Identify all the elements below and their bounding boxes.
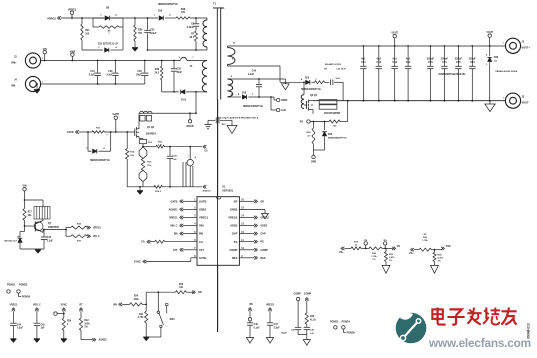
svg-text:220uF: 220uF: [455, 57, 463, 60]
capacitor C44: [10, 323, 23, 339]
capacitor C46: [247, 323, 260, 338]
svg-text:GATB: GATB: [67, 131, 74, 134]
label T1: [213, 2, 225, 10]
svg-text:VIN-: VIN-: [11, 85, 16, 88]
svg-text:VDD2: VDD2: [230, 224, 238, 228]
ground: [143, 337, 149, 341]
svg-text:R26: R26: [67, 321, 72, 323]
svg-text:RES: RES: [232, 256, 238, 260]
node VINS: [70, 50, 76, 61]
svg-text:VOUT: VOUT: [391, 31, 398, 34]
svg-text:0.47k: 0.47k: [438, 256, 444, 259]
svg-text:0.47k: 0.47k: [389, 256, 395, 259]
svg-text:1: 1: [42, 81, 43, 83]
svg-text:PGND4: PGND4: [342, 320, 351, 323]
svg-text:SYNC: SYNC: [61, 304, 68, 306]
diode D16: [154, 3, 178, 20]
resistor R24: [433, 250, 444, 263]
svg-text:VREG2: VREG2: [266, 304, 275, 306]
svg-text:CA: CA: [141, 241, 145, 244]
signal ground: [246, 338, 253, 344]
zener diode D11: [4, 225, 25, 249]
svg-text:VS+: VS+: [409, 252, 414, 255]
svg-text:C55: C55: [456, 61, 461, 64]
diode D22: [322, 121, 347, 150]
signal ground GND2: [239, 209, 268, 218]
capacitor C36: [41, 229, 54, 249]
svg-text:7: 7: [187, 156, 188, 158]
node VOUT2: [486, 31, 493, 46]
svg-text:PGND3: PGND3: [330, 320, 339, 323]
svg-text:R39: R39: [155, 69, 160, 71]
pot TP1: [183, 146, 197, 187]
svg-text:C51: C51: [442, 61, 447, 64]
resistor R40: [176, 283, 194, 294]
svg-text:R40: R40: [179, 283, 184, 286]
resistor R4: [315, 63, 347, 84]
signal ground: [266, 338, 273, 344]
resistor R27: [81, 17, 91, 50]
svg-text:VREG2: VREG2: [228, 216, 238, 220]
svg-text:C50: C50: [428, 61, 433, 64]
port CA: [203, 145, 208, 153]
svg-text:www.elecfans.com: www.elecfans.com: [428, 336, 531, 350]
port OVP: [441, 245, 451, 250]
svg-text:33uF: 33uF: [136, 74, 142, 76]
ground: [34, 339, 40, 343]
signal ground: [382, 262, 390, 274]
switch SW1: [157, 291, 175, 337]
capacitor C51: [441, 45, 449, 102]
svg-text:C45: C45: [41, 323, 46, 326]
svg-text:VOUT-: VOUT-: [522, 102, 530, 105]
signal ground: [227, 120, 237, 133]
transistor Q7: [25, 219, 60, 232]
ground: [485, 101, 495, 112]
wire winding A bottom: [228, 65, 281, 83]
capacitor C39: [106, 60, 118, 85]
resistor R30: [134, 17, 137, 47]
svg-text:VREG1: VREG1: [199, 216, 209, 220]
svg-text:AGND1: AGND1: [99, 339, 108, 342]
svg-text:D10 BZT52C11-LP: D10 BZT52C11-LP: [98, 43, 118, 45]
resistor R41: [138, 311, 148, 337]
transistor Q3 Q4: [304, 94, 341, 115]
svg-text:VIN: VIN: [113, 304, 117, 306]
svg-text:3.3uF: 3.3uF: [17, 328, 24, 330]
wire: [165, 146, 203, 148]
connector J4 VIN-: [11, 76, 43, 91]
port COMPb: [305, 298, 308, 313]
svg-text:1: 1: [192, 57, 193, 59]
svg-text:220uF: 220uF: [441, 57, 449, 60]
port COMP: [239, 248, 268, 252]
svg-text:VRRG2: VRRG2: [68, 9, 77, 12]
svg-text:MMSD4448SFT1G: MMSD4448SFT1G: [328, 136, 347, 139]
ground: [10, 339, 16, 343]
svg-text:D18: D18: [242, 93, 247, 95]
capacitor C33: [171, 60, 183, 93]
label 2KV: [222, 124, 227, 126]
node DRAB: [187, 112, 194, 128]
diode D8: [93, 7, 123, 21]
transformer T1 secondary winding A: [228, 43, 236, 66]
wire: [81, 330, 93, 339]
svg-text:PA1576NL: PA1576NL: [213, 7, 225, 10]
transformer T1 primary winding: [202, 61, 207, 92]
svg-text:0u1: 0u1: [393, 57, 398, 60]
svg-text:VIN: VIN: [199, 224, 204, 228]
svg-text:2: 2: [179, 57, 180, 59]
port VDD2: [239, 224, 267, 228]
svg-text:1: 1: [503, 98, 504, 100]
resistor R19: [351, 242, 361, 250]
transformer T1 aux winding: [203, 20, 207, 50]
capacitor C38: [136, 60, 148, 84]
wire: [187, 60, 207, 62]
svg-text:68.7: 68.7: [190, 37, 195, 39]
wire top input rail: [41, 60, 162, 62]
svg-text:VDD2: VDD2: [260, 225, 267, 228]
capacitor C52: [376, 45, 382, 102]
resistor R17: [23, 200, 33, 226]
port VREG2: [10, 304, 19, 323]
ground: [35, 250, 41, 254]
capacitor C35: [167, 146, 178, 188]
port VREG2b: [266, 304, 275, 322]
svg-text:D16: D16: [158, 11, 163, 13]
connector J1 VOUT+: [503, 38, 530, 53]
svg-text:PARALLELING DIODE: PARALLELING DIODE: [496, 70, 518, 73]
resistor R8: [93, 18, 123, 35]
svg-text:VS: VS: [397, 245, 401, 248]
resistor R12: [156, 142, 165, 149]
svg-text:0u1: 0u1: [377, 57, 382, 60]
svg-text:BILAMP L/C33N: BILAMP L/C33N: [325, 63, 341, 66]
pin 4 VIN: [194, 223, 203, 228]
wire: [298, 334, 307, 336]
svg-text:0.33uF: 0.33uF: [187, 27, 195, 29]
resistor R29: [306, 121, 315, 150]
svg-text:BZT52C11-F: BZT52C11-F: [4, 241, 17, 243]
svg-text:GND1: GND1: [199, 208, 207, 212]
svg-text:100: 100: [181, 11, 186, 14]
node SRB: [311, 150, 316, 163]
watermark logo: [396, 312, 427, 343]
svg-text:100k: 100k: [84, 323, 90, 325]
svg-text:220uF: 220uF: [469, 57, 477, 60]
svg-text:2KV: 2KV: [222, 124, 227, 126]
svg-text:1: 1: [106, 135, 107, 137]
port ATT: [173, 248, 197, 252]
wire: [190, 18, 207, 20]
svg-text:RSNCH: RSNCH: [203, 190, 211, 192]
ground: [61, 339, 67, 343]
resistor R18: [305, 313, 316, 324]
svg-text:R17: R17: [28, 212, 33, 214]
wire: [79, 131, 92, 133]
label paralleling diode: [496, 70, 518, 73]
svg-text:PS: PS: [260, 241, 264, 244]
svg-text:3.3uF: 3.3uF: [106, 74, 113, 76]
svg-text:RJC0651DPB8: RJC0651DPB8: [324, 113, 341, 115]
svg-text:24.3: 24.3: [155, 71, 160, 74]
wire: [139, 112, 196, 114]
port VIN_C: [170, 224, 197, 228]
svg-text:PS: PS: [300, 121, 304, 124]
node PS: [300, 120, 329, 124]
pin 14 VREG2: [228, 215, 244, 220]
pin 7 ATT: [194, 248, 204, 252]
svg-text:GRM32ER71E226KE15L: GRM32ER71E226KE15L: [438, 73, 466, 76]
svg-text:CA: CA: [204, 150, 208, 153]
resistor R2: [190, 27, 198, 51]
op-amp U1 ADP1051: [197, 185, 239, 266]
svg-text:FB: FB: [364, 240, 367, 242]
svg-text:4.75k: 4.75k: [138, 316, 144, 319]
svg-text:1%: 1%: [438, 260, 441, 262]
wire: [24, 199, 43, 206]
svg-text:R41: R41: [139, 313, 144, 316]
port VS2: [409, 248, 419, 255]
pin 11 PS: [234, 240, 245, 244]
svg-text:RN: RN: [174, 233, 178, 236]
node ALB: [270, 96, 286, 112]
wire: [142, 292, 175, 311]
capacitor C34: [469, 45, 477, 102]
node FB: [361, 240, 369, 250]
wire bottom input rail: [41, 83, 145, 85]
signal ground: [303, 335, 310, 346]
svg-text:DRAB: DRAB: [187, 125, 194, 128]
resistor R37: [66, 230, 100, 243]
node VIN: [23, 184, 27, 200]
svg-text:ATT: ATT: [173, 249, 178, 252]
wire: [135, 17, 158, 19]
capacitor C37: [267, 323, 280, 338]
node: [54, 312, 65, 315]
transformer T1 core: [217, 8, 220, 100]
wire: [314, 149, 325, 151]
svg-text:VRRG2: VRRG2: [47, 16, 56, 20]
svg-text:C10 100pF CAPACITOR PROGESN 15: C10 100pF CAPACITOR PROGESN 15KV A: [218, 116, 259, 119]
pin 16 SR: [234, 199, 245, 203]
svg-text:PGND4: PGND4: [22, 296, 31, 299]
svg-text:GATB: GATB: [199, 199, 206, 203]
diode D9: [86, 131, 111, 162]
svg-text:VREG1: VREG1: [93, 228, 102, 230]
resistor R28: [329, 120, 348, 128]
svg-text:3.3uF: 3.3uF: [89, 74, 96, 76]
svg-text:220uF: 220uF: [427, 57, 435, 60]
port GATB: [67, 130, 79, 134]
capacitor C40: [248, 70, 262, 98]
diode D30: [486, 45, 499, 102]
pin 2 GND1: [194, 208, 207, 212]
wire: [93, 17, 135, 19]
port VS+: [339, 247, 351, 254]
resistor R14: [126, 131, 135, 187]
watermark url: [428, 336, 531, 350]
transformer T1 secondary winding B: [228, 76, 233, 97]
svg-text:C41: C41: [361, 61, 366, 64]
capacitor C19: [89, 60, 101, 85]
diode D20: [301, 77, 321, 90]
svg-text:MMSD4448SFT1G: MMSD4448SFT1G: [243, 105, 263, 108]
svg-text:RD: RD: [249, 303, 253, 306]
svg-text:C40: C40: [252, 70, 257, 73]
svg-text:1: 1: [503, 43, 504, 45]
isolation barrier: [217, 100, 219, 333]
port VRRG2: [47, 16, 61, 20]
svg-text:COMP: COMP: [229, 248, 237, 252]
wire secondary bottom rail: [313, 100, 505, 102]
diode D1: [181, 90, 207, 102]
wire: [138, 113, 140, 126]
wire: [312, 100, 314, 102]
svg-text:1%: 1%: [84, 327, 87, 329]
svg-text:VDD2: VDD2: [281, 99, 288, 102]
svg-text:MMSD4448SFT1G: MMSD4448SFT1G: [90, 159, 110, 162]
package outline: [319, 100, 337, 110]
svg-text:SYNC: SYNC: [199, 256, 207, 260]
svg-text:D1 B: D1 B: [181, 100, 187, 102]
svg-text:SW1: SW1: [170, 318, 176, 321]
resistor R23b: [419, 234, 432, 251]
earth ground: [205, 120, 212, 129]
jumper J5: [179, 57, 194, 68]
node VDD2: [271, 97, 288, 102]
svg-text:41.2k: 41.2k: [310, 318, 316, 321]
port VDD_C: [33, 304, 41, 323]
svg-text:D20: D20: [305, 77, 310, 79]
node VOUT: [391, 31, 398, 46]
pin 12 OVP: [232, 232, 245, 236]
svg-text:CA: CA: [199, 240, 203, 244]
capacitor C50: [427, 45, 435, 102]
node VRRG2: [68, 9, 77, 19]
wire: [148, 49, 208, 51]
svg-text:R34: R34: [134, 295, 139, 298]
svg-text:PGND1: PGND1: [7, 283, 16, 286]
svg-text:AGND1: AGND1: [169, 208, 178, 211]
svg-text:Q1 Q2: Q1 Q2: [147, 126, 155, 129]
svg-text:ALB: ALB: [281, 109, 286, 112]
value R30: [138, 29, 143, 35]
port VS: [392, 245, 400, 250]
svg-text:SYNC: SYNC: [134, 260, 141, 263]
node COMP: [294, 293, 312, 327]
svg-text:1%: 1%: [372, 259, 375, 261]
wire: [104, 131, 134, 133]
svg-text:VOUT+: VOUT+: [522, 47, 531, 50]
svg-text:C52: C52: [377, 61, 382, 64]
capacitor C43: [304, 324, 315, 335]
svg-text:VINS: VINS: [70, 50, 76, 53]
svg-text:0u1: 0u1: [361, 57, 366, 60]
diode D10: [82, 27, 123, 52]
svg-text:R16 0: R16 0: [155, 191, 162, 193]
svg-text:RES: RES: [260, 257, 265, 260]
svg-text:SR: SR: [234, 199, 238, 203]
svg-text:1nF: 1nF: [310, 333, 315, 335]
capacitor C53: [392, 45, 398, 102]
svg-text:1.74k: 1.74k: [422, 239, 428, 242]
resistor R35: [65, 223, 101, 230]
port RN: [174, 232, 197, 236]
svg-text:1uF: 1uF: [41, 328, 46, 330]
resistor R23 on CA pin: [141, 240, 197, 244]
port PS: [239, 240, 264, 244]
capacitor C54: [405, 45, 411, 102]
connector J3 VOUT-: [503, 93, 529, 108]
svg-text:COMP: COMP: [304, 293, 312, 296]
wire: [342, 82, 344, 100]
svg-text:Q3 Q4: Q3 Q4: [310, 94, 318, 97]
pin 1 GATB: [194, 199, 206, 203]
port VREG2: [239, 216, 269, 220]
svg-text:RS: RS: [384, 240, 388, 242]
svg-text:SRB: SRB: [311, 160, 316, 163]
port SYNC: [134, 258, 197, 264]
svg-text:OVP: OVP: [446, 245, 451, 248]
svg-text:100pF: 100pF: [281, 333, 288, 335]
svg-text:1: 1: [42, 58, 43, 60]
ground: [132, 48, 138, 52]
port RSNCH: [203, 185, 211, 192]
ground: [34, 83, 40, 93]
pin 6 CA: [194, 240, 203, 244]
wire winding B top: [228, 78, 286, 80]
current transformer secondary: [301, 81, 305, 108]
wire: [347, 100, 349, 122]
svg-text:VS+: VS+: [339, 251, 344, 254]
diode D18: [238, 93, 271, 109]
svg-text:PGND2: PGND2: [19, 283, 28, 286]
port VREG1: [169, 216, 197, 220]
resistor R38: [176, 8, 190, 19]
svg-text:GATB: GATB: [171, 200, 178, 203]
node VIN: [43, 48, 47, 61]
pin 9 RES: [232, 256, 243, 260]
svg-text:C53: C53: [392, 61, 397, 64]
svg-text:2.2uF: 2.2uF: [248, 74, 255, 76]
svg-text:R18: R18: [310, 316, 315, 318]
resistor R20: [369, 247, 382, 261]
svg-text:C46: C46: [254, 323, 259, 326]
connector J2 VIN+: [11, 53, 43, 68]
wire SR snubber row: [280, 81, 303, 83]
svg-text:C37: C37: [274, 324, 279, 326]
svg-text:D22: D22: [328, 134, 333, 136]
port AGND1: [92, 338, 107, 342]
svg-text:VIN: VIN: [43, 48, 47, 51]
svg-text:1.74k: 1.74k: [371, 255, 377, 258]
svg-text:PGND5: PGND5: [347, 331, 356, 334]
svg-text:MMSD4448SFT1G: MMSD4448SFT1G: [158, 3, 178, 6]
svg-text:GATB: GATB: [112, 113, 119, 116]
svg-text:750: 750: [138, 32, 143, 35]
port RES: [239, 256, 265, 260]
svg-text:ATT: ATT: [199, 248, 204, 252]
svg-text:R22: R22: [84, 320, 89, 322]
port VIN: [113, 303, 130, 307]
svg-text:2.2uF: 2.2uF: [47, 240, 54, 242]
svg-text:GND2: GND2: [230, 208, 238, 212]
wire: [162, 186, 202, 188]
svg-text:D30: D30: [494, 57, 499, 59]
port RN: [192, 291, 202, 295]
